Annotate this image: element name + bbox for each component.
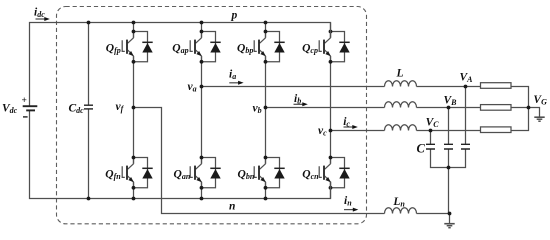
svg-text:vc: vc — [318, 125, 327, 138]
svg-text:Ln: Ln — [392, 196, 405, 209]
svg-text:idc: idc — [34, 7, 45, 20]
svg-text:L: L — [396, 67, 404, 79]
svg-text:p: p — [231, 10, 238, 22]
svg-text:VC: VC — [426, 117, 440, 130]
svg-text:ic: ic — [343, 116, 350, 129]
svg-text:vf: vf — [116, 101, 125, 114]
svg-text:Qcn: Qcn — [302, 169, 319, 182]
svg-text:Qbp: Qbp — [237, 43, 253, 56]
svg-text:Qfn: Qfn — [105, 169, 121, 182]
svg-text:Cdc: Cdc — [69, 103, 85, 116]
svg-text:Qfp: Qfp — [106, 43, 121, 56]
svg-text:ib: ib — [294, 93, 301, 106]
svg-text:va: va — [188, 81, 197, 94]
svg-text:VB: VB — [444, 94, 458, 107]
svg-text:vb: vb — [253, 103, 262, 116]
svg-text:VA: VA — [460, 72, 474, 85]
svg-text:C: C — [417, 141, 426, 155]
svg-text:Qan: Qan — [174, 169, 191, 182]
svg-text:n: n — [229, 201, 235, 213]
svg-text:+: + — [22, 96, 27, 106]
svg-text:Qcp: Qcp — [302, 43, 318, 56]
svg-text:ia: ia — [229, 68, 236, 81]
svg-text:Qbn: Qbn — [238, 169, 255, 182]
svg-text:in: in — [344, 195, 352, 208]
svg-text:VG: VG — [533, 94, 547, 107]
svg-text:Vdc: Vdc — [2, 103, 18, 116]
svg-text:Qap: Qap — [172, 43, 188, 56]
